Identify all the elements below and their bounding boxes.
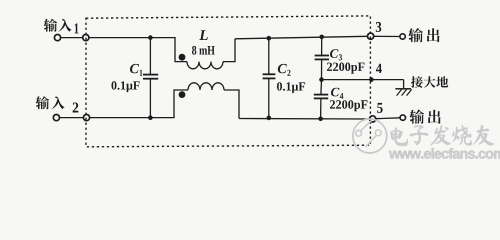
- junction C1 bottom: [148, 115, 153, 120]
- label C4: [331, 88, 339, 97]
- label C1: [130, 64, 139, 73]
- polarity dot bottom winding: [179, 91, 186, 98]
- wire node1 to choke: [89, 37, 176, 39]
- wire terminal1-node1: [61, 37, 83, 39]
- label C3: [330, 49, 338, 58]
- terminal 3: [368, 33, 374, 39]
- node 1 on box edge: [83, 35, 89, 41]
- junction C1 top: [148, 35, 153, 40]
- label 接大地 (earth): [411, 76, 448, 88]
- label C2 subscript: [287, 70, 290, 76]
- pin label 5: [377, 103, 382, 113]
- pin label 3: [376, 22, 381, 32]
- watermark logo (decorative): [353, 119, 387, 153]
- node 2 on box edge: [83, 115, 89, 121]
- pin label 2: [73, 103, 79, 113]
- junction C4 bottom: [318, 117, 323, 122]
- junction node 4 on box edge: [369, 77, 374, 82]
- watermark url (decorative): [389, 148, 500, 159]
- value 0.1uF (C2): [277, 82, 305, 93]
- terminal 1: [54, 35, 60, 41]
- inductor L bottom winding: [174, 90, 188, 118]
- capacitor C1: [149, 38, 151, 75]
- dashed filter enclosure: [86, 16, 370, 147]
- label 输出 (top output): [408, 28, 439, 42]
- junction C2 bottom: [267, 116, 272, 121]
- label L: [199, 30, 208, 40]
- polarity dot top winding: [179, 54, 186, 61]
- capacitor C3: [321, 37, 323, 56]
- label C2: [278, 64, 287, 73]
- value 2200pF (C4): [330, 100, 367, 111]
- label C4 subscript: [340, 93, 344, 99]
- wire terminal2-node2: [60, 117, 84, 119]
- junction node 4 (between C3 C4): [319, 77, 324, 82]
- capacitor C2: [268, 38, 270, 74]
- label 输出 (bottom output): [410, 110, 441, 124]
- wire node2 to choke: [90, 117, 175, 119]
- watermark 电子发烧友 (decorative): [391, 125, 495, 146]
- value 8 mH: [192, 46, 215, 55]
- capacitor C4: [320, 80, 323, 95]
- value 0.1uF (C1): [111, 81, 139, 92]
- pin label 4: [376, 64, 382, 73]
- output terminal (top): [400, 34, 405, 39]
- output terminal (bottom): [400, 115, 405, 120]
- value 2200pF (C3): [327, 63, 364, 74]
- terminal 5: [370, 116, 376, 122]
- terminal 2: [53, 115, 59, 121]
- wire terminal3 to output: [374, 35, 400, 37]
- label C3 subscript: [339, 54, 342, 60]
- label 输入 (bottom input): [36, 96, 65, 109]
- wire terminal5 to output: [376, 117, 400, 120]
- wire choke to terminal 3: [235, 36, 368, 39]
- wire node4 to earth: [322, 79, 404, 81]
- earth ground symbol: [403, 80, 405, 89]
- label 输入 (top input): [44, 19, 72, 32]
- junction C3 top: [319, 35, 324, 40]
- pin label 1: [75, 23, 79, 33]
- label C1 subscript: [140, 70, 143, 76]
- junction C2 top: [267, 36, 272, 41]
- inductor L top winding: [175, 37, 187, 62]
- wire choke to terminal 5: [239, 118, 369, 121]
